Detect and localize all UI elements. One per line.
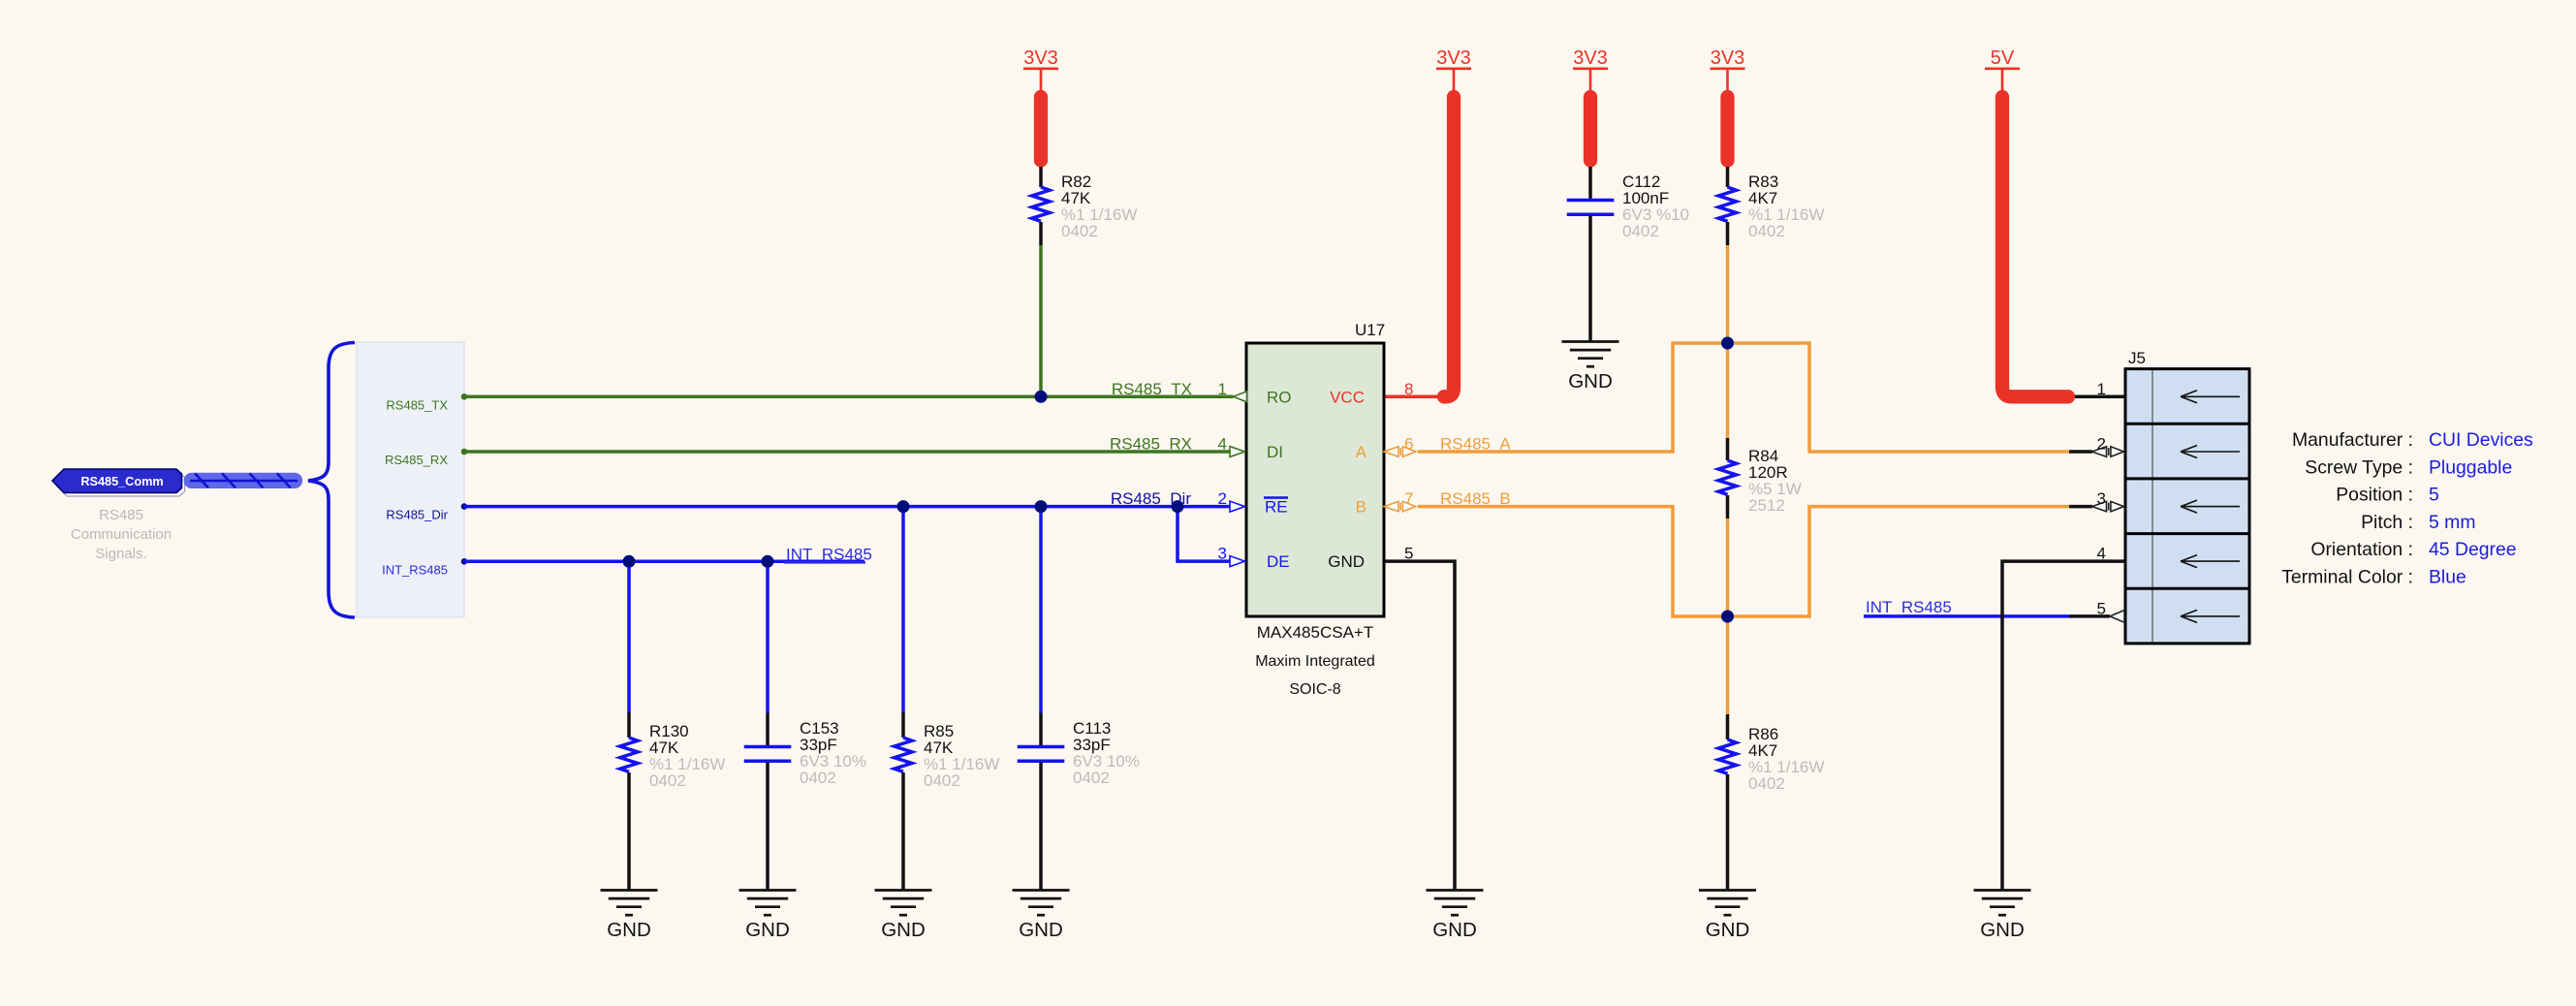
svg-text:RS485: RS485 [99, 507, 143, 523]
harness brace [308, 343, 355, 618]
wire R84 bottom [1726, 519, 1730, 616]
ground below R85 [875, 891, 932, 942]
svg-text:5: 5 [2429, 485, 2439, 506]
ground below C153 [739, 891, 797, 942]
svg-text:GND: GND [1328, 552, 1365, 571]
wire J5 pin1 lead [2073, 395, 2125, 399]
gray note text [71, 507, 172, 562]
svg-text:Blue: Blue [2429, 567, 2466, 588]
label R83 values [1748, 173, 1824, 240]
label R130 values [649, 722, 725, 790]
wire R84 top [1726, 343, 1730, 438]
J5 pin 2 bidir marker [2092, 447, 2124, 456]
junction TX/R82 [1035, 391, 1048, 403]
label C112 values [1622, 173, 1689, 240]
svg-text:Manufacturer :: Manufacturer : [2292, 429, 2413, 451]
svg-text:GND: GND [745, 919, 790, 941]
pin 4 DI marker [1230, 447, 1245, 457]
svg-text:DE: DE [1267, 552, 1290, 571]
J5 cell arrow 5 [2181, 610, 2240, 622]
J5 cell arrow 1 [2181, 391, 2240, 403]
svg-text:0402: 0402 [1622, 222, 1659, 240]
svg-text:RS485_Dir: RS485_Dir [386, 508, 448, 522]
J5 cell arrow 2 [2181, 446, 2240, 458]
svg-text:3V3: 3V3 [1711, 47, 1745, 69]
J5 pin 5 marker [2110, 611, 2124, 623]
svg-text:GND: GND [607, 919, 651, 941]
svg-text:0402: 0402 [1061, 222, 1098, 240]
svg-text:4: 4 [2097, 545, 2106, 563]
connector J5 body [2125, 369, 2249, 644]
svg-text:1: 1 [1218, 380, 1227, 398]
wire J5 pin2 lead [2069, 450, 2092, 454]
svg-text:RS485_RX: RS485_RX [385, 453, 448, 467]
svg-text:1: 1 [2097, 380, 2106, 398]
svg-text:3V3: 3V3 [1023, 47, 1058, 69]
svg-text:4: 4 [1218, 435, 1227, 454]
wire INT_RS485 pin lead [2069, 614, 2110, 618]
svg-text:RS485_TX: RS485_TX [386, 398, 448, 413]
ground below U17 pin5 [1427, 891, 1484, 942]
junction A/R83/R84 [1721, 337, 1734, 350]
wire R85 drop [901, 507, 905, 712]
junction INT/C153 [762, 555, 774, 568]
svg-text:A: A [1356, 443, 1367, 461]
svg-text:0402: 0402 [1748, 222, 1785, 240]
wire start dot RS485_RX [461, 449, 468, 456]
capacitor C113 [1018, 713, 1065, 891]
svg-text:RS485_RX: RS485_RX [1110, 435, 1192, 454]
label R82 values [1061, 173, 1137, 240]
svg-text:INT_RS485: INT_RS485 [382, 562, 448, 577]
label R84 values [1748, 447, 1802, 515]
harness entry RS485_Comm flag shadow [55, 473, 185, 497]
power 3V3 (C112) [1573, 47, 1608, 161]
wire R82 to RS485_TX [1039, 245, 1043, 396]
svg-text:RS485_B: RS485_B [1440, 489, 1511, 508]
J5 inner divider [2152, 369, 2153, 644]
ground below R130 [601, 891, 658, 942]
wire start dot RS485_TX [461, 393, 468, 400]
svg-text:0402: 0402 [924, 771, 960, 790]
svg-text:GND: GND [1980, 919, 2025, 941]
wire INT_RS485 left [464, 560, 864, 564]
svg-text:Pitch :: Pitch : [2361, 512, 2413, 533]
wire VCC pin8 [1384, 395, 1446, 399]
pin 6 A marker [1384, 447, 1416, 456]
svg-text:INT_RS485: INT_RS485 [1866, 598, 1952, 616]
svg-text:INT_RS485: INT_RS485 [786, 546, 872, 564]
svg-text:GND: GND [881, 919, 926, 941]
wire C153 drop [766, 561, 770, 712]
wire RS485_A [1418, 343, 2069, 452]
svg-text:8: 8 [1404, 380, 1413, 398]
J5 pin 3 bidir marker [2092, 501, 2124, 511]
resistor R86 [1718, 714, 1736, 891]
resistor R84 [1718, 438, 1736, 519]
svg-text:Screw Type :: Screw Type : [2305, 456, 2413, 478]
svg-text:GND: GND [1432, 919, 1477, 941]
wire R130 drop [627, 561, 631, 712]
wire RS485_Dir [464, 505, 1230, 509]
svg-text:Signals.: Signals. [95, 546, 146, 562]
svg-text:Pluggable: Pluggable [2429, 456, 2512, 478]
label R85 values [924, 722, 999, 790]
J5 cell arrow 3 [2181, 500, 2240, 513]
svg-text:2: 2 [2097, 435, 2106, 454]
resistor R85 [895, 712, 912, 891]
wire RS485_B [1418, 507, 2069, 616]
capacitor C153 [744, 713, 792, 891]
power 3V3 (R82) [1023, 47, 1058, 161]
svg-text:MAX485CSA+T: MAX485CSA+T [1257, 623, 1373, 642]
svg-text:7: 7 [1404, 489, 1413, 508]
signal group box [357, 342, 464, 617]
svg-text:B: B [1356, 498, 1367, 517]
svg-text:U17: U17 [1355, 321, 1385, 339]
pin 2 RE marker [1230, 501, 1245, 512]
wire J5 pin3 lead [2069, 505, 2092, 509]
bus (hatched bundle) [184, 473, 303, 488]
svg-text:5V: 5V [1991, 47, 2015, 69]
svg-text:CUI Devices: CUI Devices [2429, 429, 2533, 451]
label C113 values [1073, 719, 1140, 787]
wire start dot INT_RS485 [461, 558, 468, 565]
resistor R82 [1032, 167, 1050, 245]
wire INT_RS485 right [1864, 614, 2069, 618]
J5 cell arrow 4 [2181, 555, 2240, 568]
junction Dir/R85 [897, 500, 910, 513]
label C153 values [800, 719, 866, 787]
svg-text:GND: GND [1568, 370, 1613, 393]
wire RS485_Dir to DE [1178, 507, 1230, 562]
ground below J5 pin4 [1974, 891, 2031, 942]
svg-text:3V3: 3V3 [1436, 47, 1471, 69]
junction B/R84/R86 [1721, 611, 1734, 623]
J5 PROPERTIES TABLE [2281, 429, 2533, 588]
svg-text:3V3: 3V3 [1573, 47, 1608, 69]
wire RS485_RX [464, 450, 1230, 454]
ground below C112 [1562, 342, 1619, 393]
svg-text:Terminal Color :: Terminal Color : [2281, 567, 2413, 588]
svg-text:J5: J5 [2128, 349, 2146, 367]
svg-text:VCC: VCC [1330, 389, 1365, 407]
svg-text:2: 2 [1218, 489, 1227, 508]
svg-text:5 mm: 5 mm [2429, 512, 2475, 533]
power 3V3 (R83) [1711, 47, 1745, 161]
svg-text:45 Degree: 45 Degree [2429, 539, 2517, 560]
svg-text:GND: GND [1019, 919, 1063, 941]
svg-text:3: 3 [2097, 489, 2106, 508]
svg-text:RE: RE [1265, 498, 1288, 517]
wire C113 drop [1039, 507, 1043, 713]
J5 row separators [2125, 423, 2249, 425]
net label INT_RS485 left [784, 546, 872, 564]
pin 3 DE marker [1230, 556, 1245, 567]
ground below C113 [1013, 891, 1070, 942]
resistor R83 [1718, 167, 1736, 245]
svg-text:0402: 0402 [1748, 774, 1785, 793]
wire RS485_TX [464, 395, 1234, 399]
wire R86 top [1726, 616, 1730, 714]
svg-text:RS485_A: RS485_A [1440, 435, 1511, 454]
svg-text:0402: 0402 [1073, 769, 1110, 787]
net label INT_RS485 right [1866, 598, 1952, 616]
pin 1 RO marker [1234, 392, 1247, 402]
svg-text:SOIC-8: SOIC-8 [1289, 681, 1340, 698]
wire R83 bottom [1726, 245, 1730, 343]
svg-text:RS485_Dir: RS485_Dir [1111, 489, 1191, 508]
svg-text:5: 5 [2097, 599, 2106, 617]
IC U17 MAX485CSA+T body [1246, 343, 1384, 616]
junction Dir/DE [1172, 500, 1184, 513]
power 3V3 (U17 VCC) [1436, 47, 1471, 396]
svg-text:Maxim Integrated: Maxim Integrated [1255, 653, 1375, 670]
svg-text:Communication: Communication [71, 526, 172, 543]
svg-text:5: 5 [1404, 545, 1413, 563]
power 5V (J5 pin1) [1985, 47, 2068, 396]
svg-text:2512: 2512 [1748, 496, 1785, 515]
wire U17 GND pin5 [1384, 561, 1455, 890]
svg-text:3: 3 [1218, 545, 1227, 563]
svg-text:RS485_TX: RS485_TX [1112, 380, 1192, 398]
svg-text:DI: DI [1267, 443, 1283, 461]
label R86 values [1748, 725, 1824, 793]
pin 7 B marker [1384, 501, 1416, 511]
junction Dir/C113 [1035, 500, 1048, 513]
svg-text:GND: GND [1706, 919, 1750, 941]
svg-text:6: 6 [1404, 435, 1413, 454]
junction INT/R130 [623, 555, 636, 568]
svg-text:Position :: Position : [2336, 485, 2413, 506]
ground below R86 [1699, 891, 1756, 942]
wire J5 pin4 to GND [2002, 561, 2125, 890]
capacitor C112 [1567, 167, 1615, 342]
svg-text:RS485_Comm: RS485_Comm [80, 475, 163, 488]
svg-text:RO: RO [1267, 389, 1292, 407]
wire start dot RS485_Dir [461, 503, 468, 510]
svg-text:0402: 0402 [649, 771, 686, 790]
resistor R130 [620, 712, 638, 891]
harness entry RS485_Comm flag [52, 469, 182, 493]
svg-text:0402: 0402 [800, 769, 836, 787]
svg-text:Orientation :: Orientation : [2310, 539, 2413, 560]
